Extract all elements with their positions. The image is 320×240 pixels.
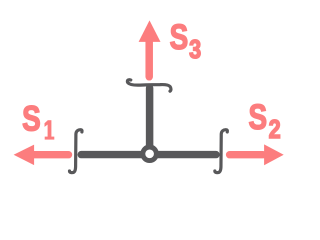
svg-text:2: 2 — [269, 117, 281, 145]
svg-text:S: S — [249, 97, 268, 137]
svg-text:3: 3 — [189, 37, 201, 65]
svg-text:S: S — [22, 98, 41, 138]
svg-text:S: S — [170, 17, 189, 57]
